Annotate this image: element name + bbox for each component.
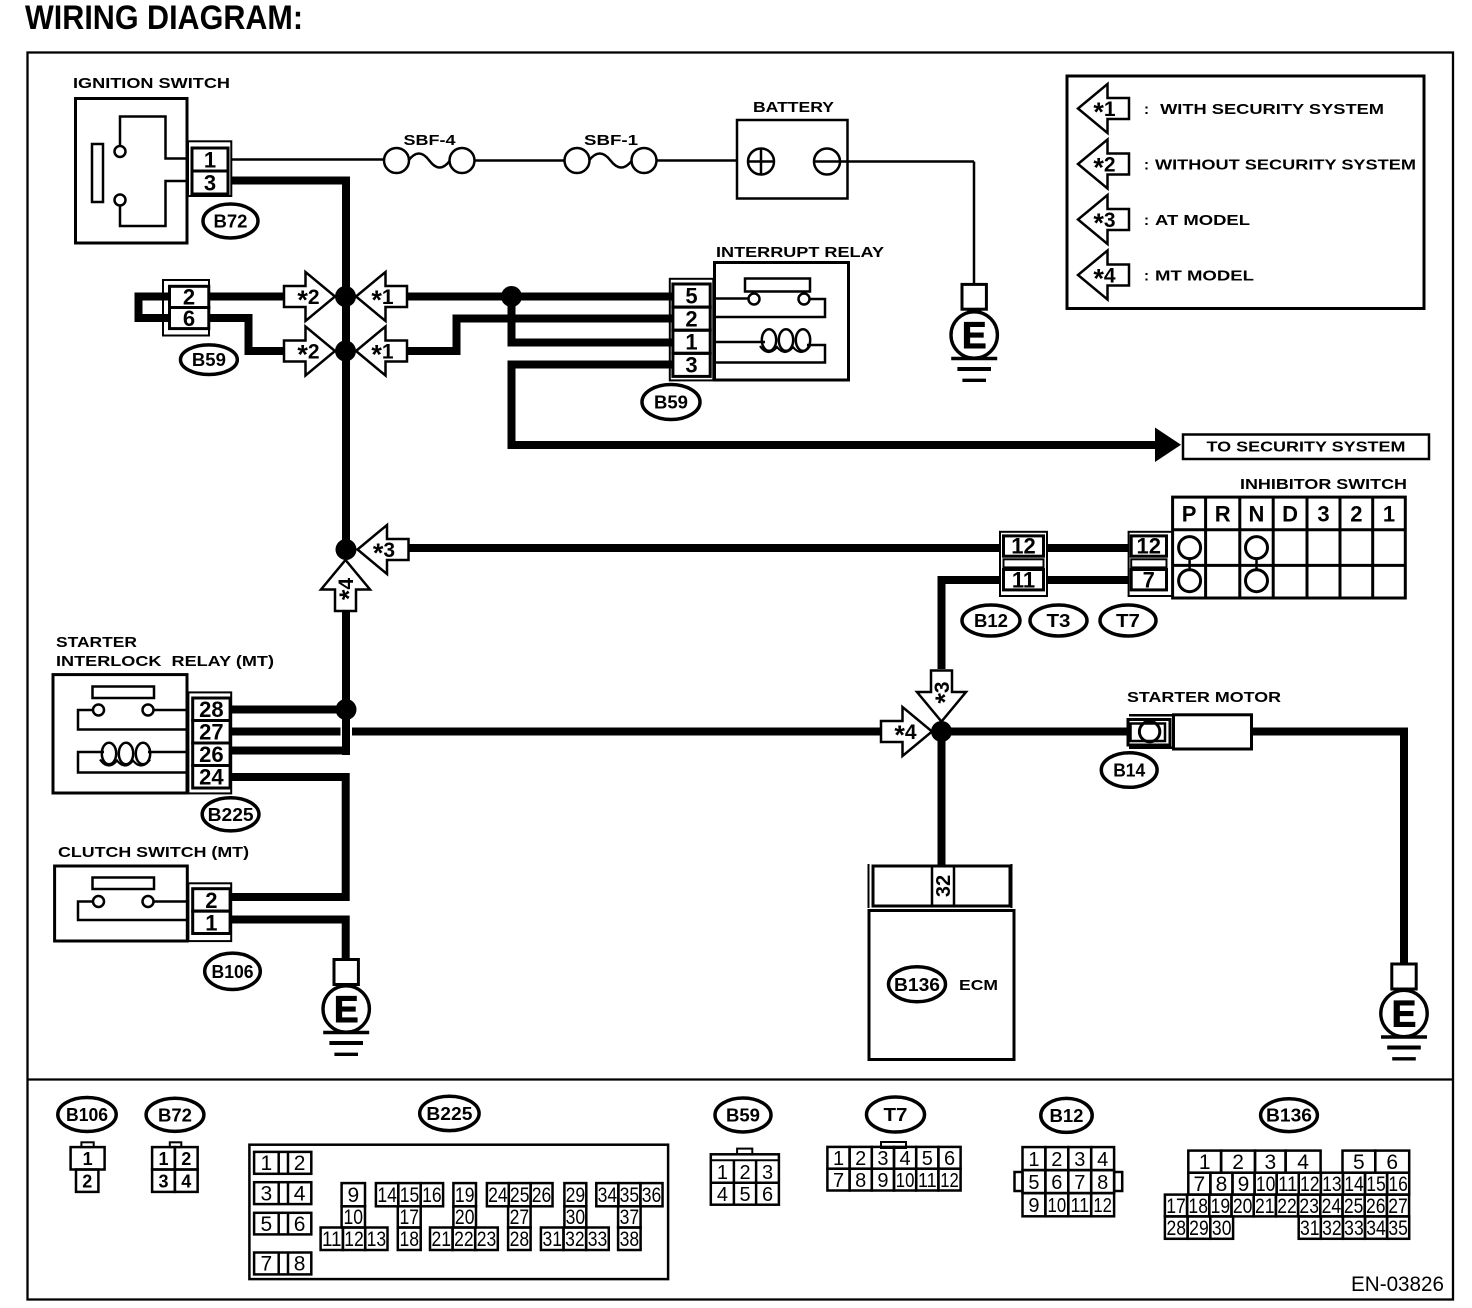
svg-text:34: 34: [1366, 1217, 1386, 1240]
svg-text:1: 1: [261, 1152, 273, 1175]
svg-text:24: 24: [488, 1184, 508, 1207]
svg-text:29: 29: [566, 1184, 586, 1207]
svg-text:4: 4: [1297, 1151, 1309, 1174]
svg-text:ECM: ECM: [959, 977, 998, 994]
svg-text:34: 34: [598, 1184, 618, 1207]
svg-text:3: 3: [685, 353, 697, 378]
svg-text:12: 12: [1300, 1173, 1320, 1196]
svg-text:STARTER MOTOR: STARTER MOTOR: [1127, 689, 1281, 706]
svg-text:7: 7: [1194, 1173, 1206, 1196]
svg-text:7: 7: [1074, 1172, 1085, 1194]
svg-text:18: 18: [1188, 1195, 1208, 1218]
svg-text:10: 10: [1256, 1173, 1276, 1196]
svg-text:3: 3: [1074, 1149, 1085, 1171]
svg-text:CLUTCH SWITCH (MT): CLUTCH SWITCH (MT): [58, 844, 249, 861]
svg-text:21: 21: [432, 1228, 452, 1251]
svg-text:6: 6: [944, 1148, 955, 1170]
svg-text:22: 22: [454, 1228, 474, 1251]
svg-text:23: 23: [1299, 1195, 1319, 1218]
svg-text:20: 20: [1233, 1195, 1253, 1218]
svg-text:6: 6: [183, 306, 195, 331]
svg-text:6: 6: [762, 1184, 773, 1206]
svg-text:SBF-1: SBF-1: [584, 132, 638, 149]
svg-text:B72: B72: [158, 1105, 192, 1125]
svg-text:4: 4: [900, 1148, 911, 1170]
svg-text:36: 36: [642, 1184, 662, 1207]
svg-text:10: 10: [344, 1206, 364, 1229]
svg-text:9: 9: [1028, 1195, 1039, 1217]
svg-text:11: 11: [1012, 567, 1035, 592]
svg-text::: :: [1144, 157, 1149, 174]
svg-text:B225: B225: [208, 805, 254, 825]
svg-text:32: 32: [1322, 1217, 1342, 1240]
svg-text:B12: B12: [974, 611, 1008, 631]
svg-text:3: 3: [877, 1148, 888, 1170]
svg-text:3: 3: [1264, 1151, 1276, 1174]
svg-text:AT MODEL: AT MODEL: [1155, 212, 1250, 229]
svg-text:1: 1: [1199, 1151, 1211, 1174]
svg-text:5: 5: [1353, 1151, 1365, 1174]
svg-text:2: 2: [855, 1148, 866, 1170]
svg-text:1: 1: [204, 147, 216, 172]
svg-text:N: N: [1249, 502, 1265, 527]
svg-text:6: 6: [1051, 1172, 1062, 1194]
svg-text:8: 8: [855, 1170, 866, 1192]
svg-text:35: 35: [620, 1184, 640, 1207]
svg-text:B136: B136: [894, 975, 940, 995]
svg-text:MT MODEL: MT MODEL: [1155, 268, 1254, 285]
svg-text:B14: B14: [1113, 760, 1145, 780]
svg-text:25: 25: [510, 1184, 530, 1207]
svg-text:T7: T7: [1116, 611, 1140, 631]
svg-text:12: 12: [1137, 534, 1161, 559]
svg-text:25: 25: [1344, 1195, 1364, 1218]
svg-text:11: 11: [322, 1228, 342, 1251]
svg-text:1: 1: [1028, 1149, 1039, 1171]
svg-text:12: 12: [344, 1228, 364, 1251]
svg-text:9: 9: [877, 1170, 888, 1192]
svg-text:3: 3: [261, 1182, 273, 1205]
svg-text:D: D: [1282, 502, 1298, 527]
svg-text:12: 12: [1093, 1195, 1112, 1217]
svg-text:28: 28: [1166, 1217, 1186, 1240]
svg-text:B59: B59: [654, 392, 688, 412]
svg-text:31: 31: [1300, 1217, 1320, 1240]
svg-text:INTERLOCK RELAY (MT): INTERLOCK RELAY (MT): [56, 653, 274, 670]
svg-text:24: 24: [199, 765, 224, 790]
svg-text:16: 16: [422, 1184, 442, 1207]
svg-text:24: 24: [1322, 1195, 1342, 1218]
svg-text:EN-03826: EN-03826: [1351, 1273, 1444, 1296]
svg-text:1: 1: [158, 1149, 168, 1169]
svg-text:2: 2: [181, 1149, 191, 1169]
svg-text:33: 33: [588, 1228, 608, 1251]
svg-text:B106: B106: [212, 962, 254, 982]
svg-text:20: 20: [455, 1206, 475, 1229]
svg-text:WITH SECURITY SYSTEM: WITH SECURITY SYSTEM: [1155, 101, 1384, 118]
svg-text:5: 5: [261, 1213, 273, 1236]
svg-text:5: 5: [739, 1184, 750, 1206]
svg-text:2: 2: [294, 1152, 306, 1175]
svg-text:3: 3: [204, 170, 216, 195]
svg-text:26: 26: [199, 742, 223, 767]
svg-text:27: 27: [199, 720, 223, 745]
svg-text:28: 28: [199, 697, 223, 722]
svg-text:2: 2: [739, 1162, 750, 1184]
svg-text:5: 5: [1028, 1172, 1039, 1194]
svg-text:21: 21: [1255, 1195, 1275, 1218]
svg-text:11: 11: [1278, 1173, 1298, 1196]
svg-text:14: 14: [377, 1184, 397, 1207]
svg-text:WIRING DIAGRAM:: WIRING DIAGRAM:: [25, 0, 303, 37]
svg-text:8: 8: [1097, 1172, 1108, 1194]
svg-text:1: 1: [717, 1162, 728, 1184]
svg-text:9: 9: [1238, 1173, 1250, 1196]
svg-text:BATTERY: BATTERY: [753, 99, 834, 116]
svg-text:32: 32: [565, 1228, 585, 1251]
svg-text:15: 15: [1366, 1173, 1386, 1196]
svg-text:WITHOUT SECURITY SYSTEM: WITHOUT SECURITY SYSTEM: [1155, 157, 1416, 174]
svg-text:3: 3: [762, 1162, 773, 1184]
svg-text:10: 10: [896, 1170, 915, 1192]
svg-text:10: 10: [1048, 1195, 1067, 1217]
svg-text:5: 5: [685, 283, 697, 308]
svg-text:5: 5: [922, 1148, 933, 1170]
svg-text:INHIBITOR SWITCH: INHIBITOR SWITCH: [1240, 476, 1407, 493]
svg-text:30: 30: [566, 1206, 586, 1229]
svg-text:30: 30: [1212, 1217, 1232, 1240]
svg-text:1: 1: [685, 330, 697, 355]
svg-text:STARTER: STARTER: [56, 634, 137, 651]
svg-text::: :: [1144, 212, 1149, 229]
svg-text:13: 13: [367, 1228, 387, 1251]
svg-text:B136: B136: [1266, 1106, 1312, 1126]
svg-text:T3: T3: [1047, 611, 1071, 631]
svg-text:B59: B59: [192, 350, 226, 370]
svg-text:4: 4: [294, 1182, 306, 1205]
svg-text:B225: B225: [426, 1104, 472, 1124]
svg-text:7: 7: [833, 1170, 844, 1192]
svg-text:16: 16: [1388, 1173, 1408, 1196]
svg-text:T7: T7: [884, 1105, 908, 1125]
svg-text:2: 2: [82, 1171, 92, 1191]
svg-text:B72: B72: [214, 211, 248, 231]
svg-text:1: 1: [833, 1148, 844, 1170]
svg-text:6: 6: [294, 1213, 306, 1236]
svg-text:2: 2: [205, 888, 217, 913]
svg-text:6: 6: [1386, 1151, 1398, 1174]
svg-text:4: 4: [181, 1171, 191, 1191]
svg-text:R: R: [1215, 502, 1231, 527]
svg-text:2: 2: [1350, 502, 1362, 527]
svg-text::: :: [1144, 101, 1149, 118]
svg-text:26: 26: [1366, 1195, 1386, 1218]
svg-text:13: 13: [1322, 1173, 1342, 1196]
svg-text:27: 27: [510, 1206, 530, 1229]
svg-text:35: 35: [1388, 1217, 1408, 1240]
svg-text:11: 11: [1070, 1195, 1089, 1217]
svg-text:32: 32: [933, 875, 955, 897]
svg-text:P: P: [1182, 502, 1197, 527]
svg-text:1: 1: [205, 910, 217, 935]
svg-text:2: 2: [1232, 1151, 1244, 1174]
svg-text:33: 33: [1344, 1217, 1364, 1240]
svg-text:27: 27: [1388, 1195, 1408, 1218]
svg-text:7: 7: [1143, 567, 1155, 592]
svg-text:3: 3: [158, 1171, 168, 1191]
svg-text:12: 12: [1011, 534, 1035, 559]
svg-text:8: 8: [1216, 1173, 1228, 1196]
svg-text:E: E: [962, 315, 987, 356]
svg-text:TO SECURITY SYSTEM: TO SECURITY SYSTEM: [1207, 439, 1406, 456]
svg-text:E: E: [334, 989, 359, 1030]
svg-text:B12: B12: [1050, 1106, 1084, 1126]
svg-text:22: 22: [1277, 1195, 1297, 1218]
svg-text:1: 1: [83, 1149, 93, 1169]
svg-text:19: 19: [455, 1184, 475, 1207]
svg-text:11: 11: [918, 1170, 937, 1192]
svg-text:28: 28: [510, 1228, 530, 1251]
svg-text:26: 26: [532, 1184, 552, 1207]
svg-text:E: E: [1392, 994, 1417, 1035]
svg-text:31: 31: [542, 1228, 562, 1251]
svg-text:2: 2: [685, 306, 697, 331]
svg-text:4: 4: [717, 1184, 728, 1206]
svg-text:INTERRUPT RELAY: INTERRUPT RELAY: [716, 244, 884, 261]
svg-text:SBF-4: SBF-4: [404, 132, 457, 149]
svg-text:3: 3: [1317, 502, 1329, 527]
svg-text:4: 4: [1097, 1149, 1108, 1171]
svg-text:18: 18: [399, 1228, 419, 1251]
svg-text:17: 17: [399, 1206, 419, 1229]
svg-text:38: 38: [620, 1228, 640, 1251]
svg-text:2: 2: [1051, 1149, 1062, 1171]
svg-text:23: 23: [477, 1228, 497, 1251]
svg-text:1: 1: [1383, 502, 1395, 527]
svg-text:B59: B59: [726, 1105, 760, 1125]
svg-text:8: 8: [294, 1253, 306, 1276]
svg-text:37: 37: [620, 1206, 640, 1229]
svg-text:B106: B106: [66, 1105, 108, 1125]
svg-text:14: 14: [1344, 1173, 1364, 1196]
svg-text:29: 29: [1189, 1217, 1209, 1240]
svg-text:17: 17: [1166, 1195, 1186, 1218]
svg-text:15: 15: [400, 1184, 420, 1207]
svg-text:IGNITION SWITCH: IGNITION SWITCH: [73, 75, 230, 92]
svg-text::: :: [1144, 268, 1149, 285]
svg-text:19: 19: [1211, 1195, 1231, 1218]
svg-text:9: 9: [347, 1184, 359, 1207]
svg-text:7: 7: [261, 1253, 273, 1276]
svg-text:12: 12: [940, 1170, 959, 1192]
